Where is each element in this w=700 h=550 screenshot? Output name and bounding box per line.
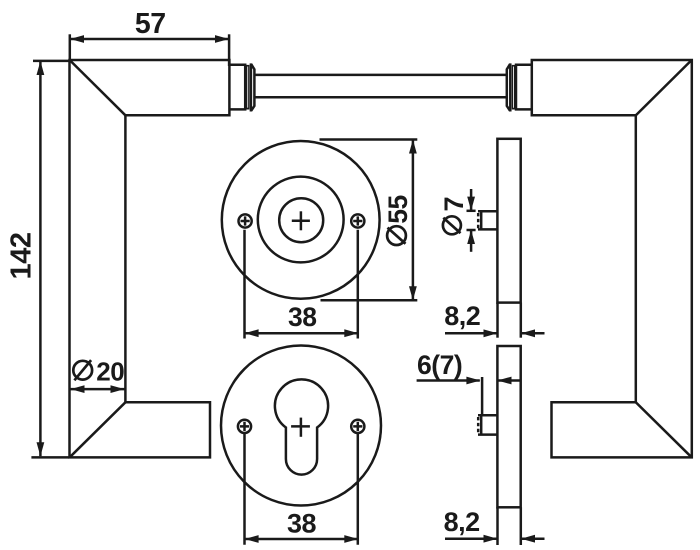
- top rosette hub cross: [292, 211, 310, 230]
- left handle bottom miter line: [70, 402, 126, 457]
- svg-text:38: 38: [288, 302, 316, 332]
- right handle top miter line: [636, 60, 692, 115]
- top rosette side view plate: [497, 139, 520, 303]
- top side view pin: [478, 211, 497, 229]
- dimension 142: [6, 61, 71, 458]
- top rosette middle circle: [258, 177, 344, 263]
- svg-text:142: 142: [6, 233, 38, 280]
- svg-text:8,2: 8,2: [444, 301, 480, 331]
- dimension 8,2 top: [444, 301, 544, 338]
- left collar ring: [246, 65, 250, 110]
- left handle top miter line: [70, 60, 125, 115]
- right handle bottom miter line: [636, 402, 692, 457]
- dimension 8,2 bottom: [444, 507, 545, 545]
- svg-text:55: 55: [383, 195, 413, 223]
- svg-text:20: 20: [96, 356, 124, 386]
- svg-text:38: 38: [287, 509, 317, 539]
- dimension 38 bottom: [245, 434, 359, 545]
- svg-text:8,2: 8,2: [444, 507, 480, 537]
- left handle outline: [70, 60, 230, 457]
- svg-text:6(7): 6(7): [417, 350, 462, 380]
- right neck: [516, 65, 532, 110]
- right collar flange: [507, 65, 511, 111]
- svg-text:7: 7: [439, 197, 469, 212]
- right collar ring: [512, 65, 516, 110]
- dimension diameter 20: [71, 356, 125, 393]
- bottom rosette left screw: [238, 420, 251, 433]
- bottom rosette keyhole: [275, 379, 328, 474]
- bottom side view pin: [478, 415, 497, 434]
- left neck: [229, 65, 245, 110]
- dimension diameter 55: [320, 140, 418, 301]
- top rosette left screw: [239, 214, 252, 227]
- top rosette right screw: [351, 214, 364, 227]
- dimension diameter 7: [439, 189, 476, 252]
- top rosette outer circle: [222, 141, 380, 299]
- dimension 57: [70, 8, 229, 66]
- dimension 6(7): [417, 350, 521, 415]
- svg-text:57: 57: [135, 8, 166, 40]
- dimension 38 top: [245, 230, 359, 339]
- spindle: [254, 75, 506, 97]
- bottom rosette right screw: [351, 420, 364, 433]
- bottom rosette cross: [291, 418, 310, 437]
- left collar flange: [251, 65, 255, 111]
- bottom rosette side view plate: [497, 346, 520, 507]
- bottom rosette outer circle: [221, 346, 381, 506]
- right handle outline: [532, 60, 692, 457]
- top rosette hub circle: [279, 198, 323, 242]
